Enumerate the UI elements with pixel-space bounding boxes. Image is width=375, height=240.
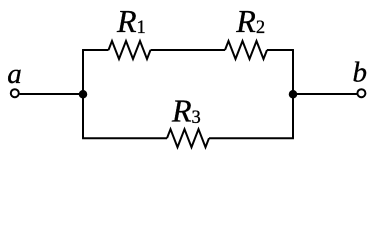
wire a to left junction	[20, 93, 83, 95]
wire R2 to top-right corner	[267, 49, 294, 51]
label R2	[235, 3, 265, 39]
wire R1 to R2	[151, 49, 226, 51]
svg-text:b: b	[353, 56, 368, 88]
junction left node	[79, 90, 88, 99]
resistor R2	[225, 41, 267, 59]
resistor R1	[109, 41, 151, 59]
svg-text:R2: R2	[235, 3, 265, 39]
label R1	[116, 3, 146, 39]
wire bottom-left to R3	[82, 137, 167, 139]
wire right vertical	[292, 50, 294, 138]
terminal a	[11, 89, 19, 97]
resistor R3	[167, 129, 209, 147]
wire left vertical	[82, 50, 84, 138]
wire top-left to R1	[82, 49, 108, 51]
wire right junction to b	[293, 93, 357, 95]
label R3	[171, 92, 201, 128]
svg-text:R3: R3	[171, 92, 201, 128]
svg-text:R1: R1	[116, 3, 146, 39]
svg-text:a: a	[7, 58, 22, 90]
node b	[353, 56, 368, 88]
junction right node	[289, 90, 298, 99]
terminal b	[357, 89, 365, 97]
wire R3 to bottom-right corner	[209, 137, 294, 139]
node a	[7, 58, 22, 90]
